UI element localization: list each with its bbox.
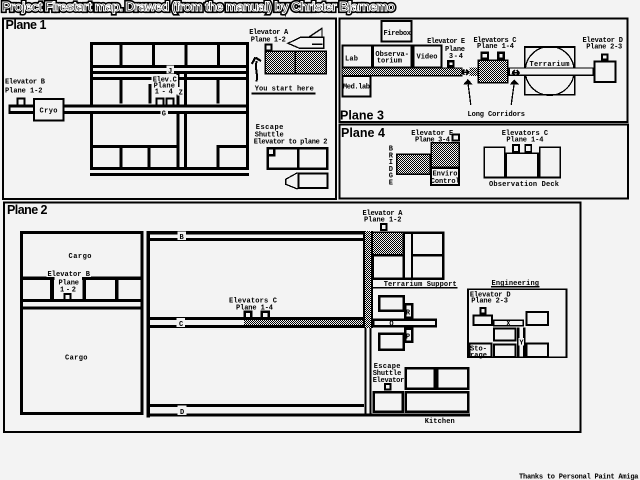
svg-text:Plane 2-3: Plane 2-3 [471,298,508,306]
svg-text:Video: Video [417,54,438,62]
svg-text:Med.lab: Med.lab [343,84,370,92]
svg-text:1-4: 1-4 [155,88,173,96]
svg-text:Plane 1-2: Plane 1-2 [5,88,43,96]
svg-text:Kitchen: Kitchen [425,418,455,426]
svg-text:Elevator B: Elevator B [48,271,91,279]
svg-text:C: C [179,321,183,329]
svg-text:Q: Q [389,320,393,328]
svg-text:Elevator B: Elevator B [5,79,46,87]
svg-text:J: J [168,68,172,76]
svg-text:Elevator to plane 2: Elevator to plane 2 [254,139,328,147]
svg-text:Plane 1-4: Plane 1-4 [506,137,543,145]
svg-text:D: D [180,409,184,417]
svg-text:Cargo: Cargo [69,253,92,261]
svg-text:torium: torium [377,58,402,66]
svg-text:Plane 1-4: Plane 1-4 [477,43,514,51]
svg-text:G: G [162,110,166,118]
svg-text:Z: Z [179,90,183,98]
svg-text:Thanks to Personal Paint Amiga: Thanks to Personal Paint Amiga [519,473,639,480]
svg-text:Plane 2-3: Plane 2-3 [586,44,622,52]
svg-text:Long Corridors: Long Corridors [468,111,526,119]
svg-text:Lab: Lab [345,56,358,64]
svg-text:Cryo: Cryo [40,108,58,116]
svg-text:Plane 1: Plane 1 [6,18,47,32]
svg-text:rage: rage [470,352,487,360]
svg-text:Plane 2: Plane 2 [7,203,48,217]
svg-text:Elevator E: Elevator E [427,38,465,46]
svg-text:Plane 3: Plane 3 [340,109,384,123]
svg-text:Control: Control [431,178,460,186]
svg-text:3-4: 3-4 [449,53,463,61]
svg-text:You start here: You start here [255,85,314,93]
svg-text:Firebox: Firebox [384,30,412,38]
svg-text:P: P [406,334,410,342]
svg-text:Plane 4: Plane 4 [341,126,385,140]
svg-text:E: E [389,179,393,187]
svg-text:Cargo: Cargo [65,355,88,363]
svg-text:Project Firestart map. Drawed: Project Firestart map. Drawed (from the … [2,0,395,14]
svg-text:Observation Deck: Observation Deck [489,181,559,189]
